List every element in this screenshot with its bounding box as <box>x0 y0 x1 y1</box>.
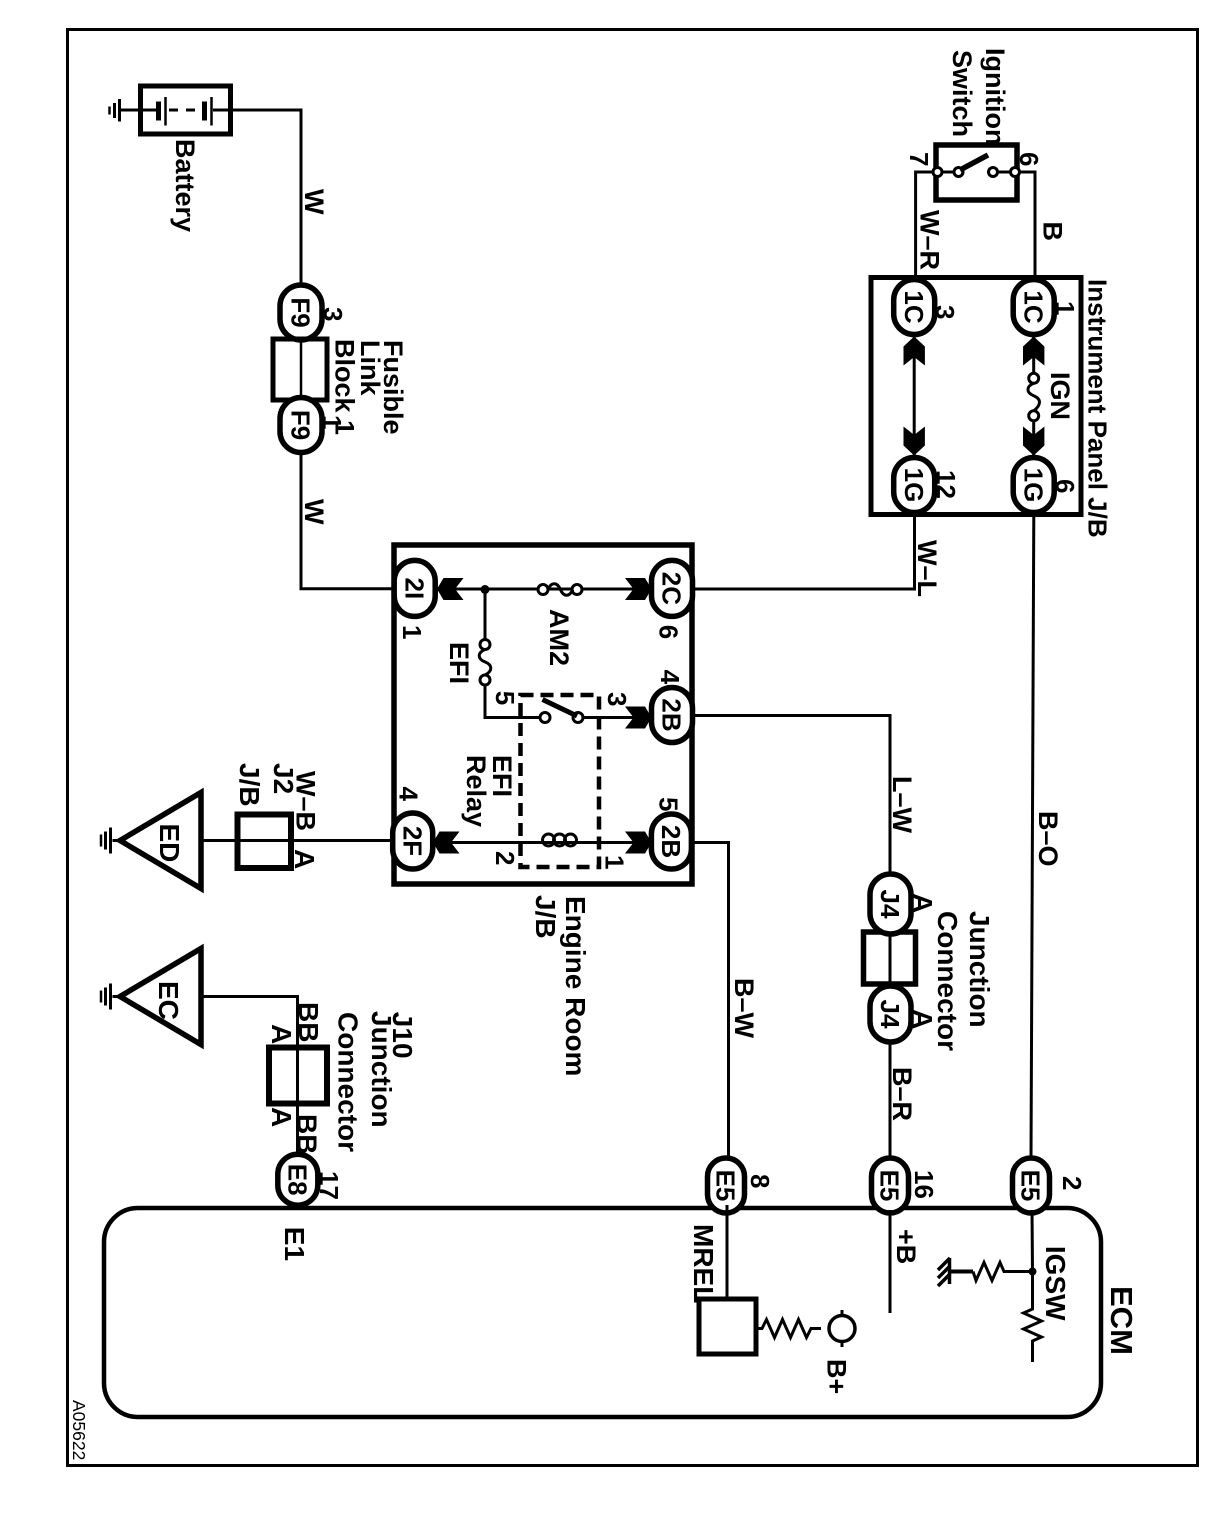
fusible link block 1 <box>273 339 327 400</box>
arrow into 1C-1 <box>1023 337 1044 366</box>
connector E5 pin 8 <box>708 1158 776 1213</box>
svg-text:J4: J4 <box>875 890 905 919</box>
connector 2C pin 6 <box>652 560 693 639</box>
svg-text:6: 6 <box>654 625 684 639</box>
svg-text:1C: 1C <box>899 290 929 323</box>
wire W-B (ED to 2F) <box>201 839 394 842</box>
ground (battery) <box>110 99 158 122</box>
pin 7 <box>904 152 934 166</box>
label Engine Room J/B <box>530 895 591 1076</box>
junction connector J4 square <box>864 932 916 984</box>
label AM2 <box>544 609 574 666</box>
pin E1 label <box>279 1227 310 1261</box>
connector 2B pin 5 <box>651 797 691 869</box>
svg-text:ED: ED <box>154 824 185 863</box>
wire label B-W <box>729 978 759 1039</box>
connector 1C pin 1 <box>1013 280 1080 335</box>
wire (relay coil row) <box>433 841 652 844</box>
label J2 J/B <box>234 763 299 807</box>
connector 1C pin 3 <box>894 280 960 335</box>
svg-text:Connector: Connector <box>333 1012 364 1152</box>
wire + fuse EFI <box>479 590 540 718</box>
wire IGSW <box>1031 1210 1035 1307</box>
relay switch <box>540 700 651 723</box>
svg-text:Junction: Junction <box>366 1011 397 1128</box>
wire (E5-8 to MREL driver) <box>726 1205 729 1299</box>
svg-text:2: 2 <box>1057 1176 1087 1190</box>
wire label B-O <box>1033 811 1063 867</box>
label EFI (fuse) <box>444 642 474 684</box>
arrow into 2C <box>625 578 652 600</box>
connector 2F pin 4 <box>393 787 433 870</box>
connector 2I pin 1 <box>394 560 435 639</box>
svg-text:B–R: B–R <box>887 1067 917 1121</box>
label Ignition Switch <box>947 48 1010 145</box>
svg-text:E1: E1 <box>279 1227 310 1261</box>
svg-text:MREL: MREL <box>688 1224 719 1303</box>
label IGN <box>1045 372 1075 420</box>
wire label B <box>1038 222 1068 242</box>
svg-text:12: 12 <box>931 470 961 499</box>
arrow into 1G-12 <box>904 427 925 456</box>
arrow into 2F <box>433 832 460 854</box>
wire (ignition switch pin 7) <box>916 172 936 277</box>
battery B1 <box>141 86 232 134</box>
wire to pullup <box>1008 1270 1033 1273</box>
svg-text:Instrument Panel J/B: Instrument Panel J/B <box>1083 279 1113 538</box>
label IGSW <box>1040 1246 1071 1321</box>
svg-text:2F: 2F <box>397 826 427 856</box>
relay pin 5 <box>490 691 520 705</box>
relay pin 3 <box>602 692 632 706</box>
relay coil <box>543 834 577 846</box>
svg-text:W–R: W–R <box>915 210 945 270</box>
svg-text:E5: E5 <box>1016 1170 1046 1202</box>
svg-text:J/B: J/B <box>234 763 265 807</box>
svg-text:W: W <box>299 189 329 215</box>
wire B-W (2B-5 to E5-8) <box>692 843 729 1159</box>
svg-text:L–W: L–W <box>887 776 917 834</box>
wire label W-R <box>915 210 945 270</box>
junction node (IGSW) <box>1029 1268 1037 1276</box>
svg-text:Battery: Battery <box>170 139 200 232</box>
junction connector J10 <box>269 1048 327 1104</box>
svg-text:A05622: A05622 <box>69 1400 89 1460</box>
svg-text:8: 8 <box>745 1174 775 1188</box>
wire label B-R <box>887 1067 917 1121</box>
wire (ignition switch pin 6) <box>1017 172 1035 277</box>
resistor (pullup) <box>950 1263 1008 1281</box>
wire BB (EC to E8) <box>201 997 298 1209</box>
EFI relay box <box>521 695 600 867</box>
svg-text:W–L: W–L <box>912 540 942 597</box>
label Junction Connector <box>932 911 995 1051</box>
junction connector J2 <box>238 815 292 869</box>
wire W (F9 to 2I) <box>301 453 394 589</box>
wire (2I to 2C row) <box>394 588 652 591</box>
svg-text:2: 2 <box>490 851 520 865</box>
relay pin 1 <box>600 855 630 869</box>
label J10 Junction Connector <box>333 1011 419 1152</box>
wire W (battery to fusible link) <box>231 110 301 286</box>
svg-text:6: 6 <box>1050 479 1080 493</box>
svg-text:A: A <box>266 1024 297 1044</box>
svg-text:IGN: IGN <box>1045 372 1075 420</box>
chassis ground (IGSW pullup) <box>938 1258 950 1286</box>
label +B <box>891 1229 921 1264</box>
svg-text:AM2: AM2 <box>544 609 574 666</box>
connector F9 pin 3 <box>280 285 348 340</box>
svg-text:E8: E8 <box>282 1164 312 1196</box>
svg-text:1: 1 <box>1050 301 1080 315</box>
svg-text:2C: 2C <box>657 572 687 605</box>
svg-text:+B: +B <box>891 1229 921 1264</box>
wire label W-B <box>291 771 321 831</box>
svg-text:4: 4 <box>655 670 685 685</box>
svg-text:B–O: B–O <box>1033 811 1063 867</box>
svg-text:16: 16 <box>909 1170 939 1199</box>
svg-text:F9: F9 <box>286 297 316 327</box>
resistor (MREL to B+) <box>756 1320 821 1338</box>
ground ED triangle <box>101 793 201 889</box>
svg-text:W: W <box>299 499 329 525</box>
svg-text:Relay: Relay <box>461 755 491 827</box>
arrow into 2B-5 <box>625 832 652 854</box>
svg-text:1: 1 <box>600 855 630 869</box>
engine room J/B box <box>394 545 692 884</box>
pin A (J2) <box>289 849 320 869</box>
svg-text:B+: B+ <box>822 1359 852 1394</box>
svg-text:A: A <box>289 849 320 869</box>
svg-text:BB: BB <box>292 1114 323 1154</box>
terminal B+ <box>829 1310 855 1347</box>
svg-text:3: 3 <box>318 307 348 321</box>
svg-text:B–W: B–W <box>729 978 759 1039</box>
label MREL <box>688 1224 719 1303</box>
label EFI Relay <box>461 755 517 827</box>
connector 2B pin 4 <box>652 670 693 743</box>
wire (1C-1 to 1G-6) <box>1032 334 1035 458</box>
svg-text:W–B: W–B <box>291 771 321 831</box>
connector 1G pin 12 <box>894 458 961 513</box>
svg-text:Junction: Junction <box>964 911 995 1028</box>
connector J4 pin A (lower) <box>870 986 938 1042</box>
svg-text:2B: 2B <box>657 698 687 731</box>
svg-text:ECM: ECM <box>1104 1286 1139 1355</box>
svg-text:1: 1 <box>317 415 347 429</box>
pin A (J10 out) <box>266 1107 297 1127</box>
wire label BB (below J10) <box>292 1114 323 1154</box>
svg-text:1: 1 <box>397 625 427 639</box>
svg-text:1G: 1G <box>899 468 929 503</box>
connector E5 pin 16 <box>872 1158 940 1213</box>
wire B-O (1G-6 to E5-2) <box>1031 515 1034 1159</box>
wire label BB (above J10) <box>293 1002 324 1042</box>
svg-text:Ignition: Ignition <box>980 48 1010 145</box>
svg-text:4: 4 <box>394 787 424 802</box>
svg-text:J/B: J/B <box>530 895 561 939</box>
svg-text:1G: 1G <box>1018 468 1048 503</box>
label Fusible Link Block 1 <box>330 339 409 435</box>
svg-text:Switch: Switch <box>947 50 977 137</box>
connector F9 pin 1 <box>280 398 347 453</box>
label B+ <box>822 1359 852 1394</box>
ground EC triangle <box>101 949 201 1045</box>
figure number A05622 <box>69 1400 89 1460</box>
wire L-W (2B-4 to J4/E5-16) <box>693 716 891 1159</box>
svg-text:B: B <box>1038 222 1068 242</box>
connector E8 pin 17 <box>278 1154 344 1205</box>
MREL driver box <box>699 1299 756 1354</box>
label Instrument Panel J/B <box>1083 279 1113 538</box>
svg-text:Engine Room: Engine Room <box>560 896 591 1076</box>
svg-text:7: 7 <box>904 152 934 166</box>
wire W-L (1G-12 to 2C) <box>693 515 915 590</box>
wire label W <box>299 499 329 525</box>
wire label W-L <box>912 540 942 597</box>
svg-text:E5: E5 <box>875 1170 905 1202</box>
wire label W <box>299 189 329 215</box>
label Battery <box>170 139 200 232</box>
svg-text:1C: 1C <box>1018 290 1048 323</box>
junction node <box>481 585 490 594</box>
svg-text:17: 17 <box>314 1171 344 1200</box>
svg-text:F9: F9 <box>286 410 316 440</box>
arrow into 1C-3 <box>904 337 925 366</box>
ignition switch SW1 <box>920 145 1031 200</box>
connector 1G pin 6 <box>1013 458 1080 513</box>
instrument panel J/B box <box>871 278 1081 515</box>
svg-text:2B: 2B <box>656 825 686 858</box>
relay pin 2 <box>490 851 520 865</box>
connector E5 pin 2 <box>1013 1158 1088 1213</box>
pin A (J10 in) <box>266 1024 297 1044</box>
svg-text:EC: EC <box>153 981 184 1020</box>
pin 6 <box>1014 152 1044 166</box>
arrow into 2B-4 <box>625 707 652 729</box>
fuse AM2 <box>538 584 582 596</box>
fuse IGN <box>1028 373 1040 421</box>
svg-text:IGSW: IGSW <box>1040 1246 1071 1321</box>
svg-text:J4: J4 <box>875 1000 905 1029</box>
svg-text:3: 3 <box>602 692 632 706</box>
svg-text:Connector: Connector <box>932 911 963 1051</box>
resistor (IGSW lower) <box>1024 1307 1042 1362</box>
ECM box <box>104 1208 1101 1417</box>
svg-text:6: 6 <box>1014 152 1044 166</box>
svg-text:EFI: EFI <box>444 642 474 684</box>
label ECM <box>1104 1286 1139 1355</box>
arrow into 1G-6 <box>1023 427 1044 456</box>
wire (1C-3 to 1G-12) <box>913 334 916 458</box>
svg-text:5: 5 <box>490 691 520 705</box>
svg-text:3: 3 <box>930 305 960 319</box>
wire +B stub <box>889 1210 892 1313</box>
svg-text:2I: 2I <box>399 578 429 600</box>
arrow into 2I <box>437 578 464 600</box>
svg-text:E5: E5 <box>711 1170 741 1202</box>
connector J4 pin A (upper) <box>870 874 938 934</box>
svg-text:5: 5 <box>654 797 684 811</box>
wire label L-W <box>887 776 917 834</box>
